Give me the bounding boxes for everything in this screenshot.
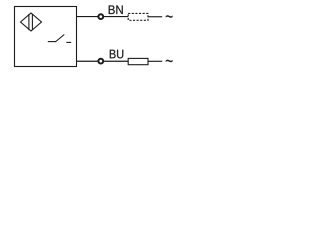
wire BU load to source [148,60,162,62]
wire BN terminal to dashed load [104,16,129,18]
wire BU from box to terminal [77,60,99,62]
load resistor box [128,58,148,64]
terminal circle BU [98,59,103,64]
optional load (dashed box) [128,13,148,20]
label BN [109,5,123,14]
sensor box [15,7,77,67]
terminal circle BN [98,14,103,19]
wire BN dashed load to source [148,16,162,18]
switch contact [48,35,71,43]
AC source tilde top [166,15,173,17]
proximity sensor symbol [21,13,42,31]
AC source tilde bottom [166,60,173,62]
wire BN from box to terminal [77,16,99,18]
wire BU terminal to load [104,60,129,62]
label BU [110,50,123,59]
